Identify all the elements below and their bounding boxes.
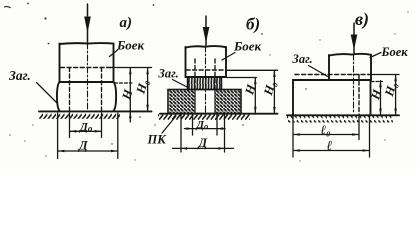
- upper die (boek) v: [329, 54, 371, 80]
- dim H v: [371, 81, 383, 115]
- center axis b: [205, 46, 207, 113]
- center axis a: [87, 43, 89, 111]
- scan specks: [4, 3, 307, 145]
- ground b: [160, 113, 278, 115]
- svg-text:б): б): [246, 15, 260, 34]
- dim l0 v: [293, 116, 359, 140]
- leader Boek b: [222, 53, 235, 61]
- dim H b: [227, 78, 257, 114]
- svg-text:До: До: [79, 122, 93, 134]
- svg-text:а): а): [120, 15, 133, 31]
- svg-text:ℓ₀: ℓ₀: [321, 122, 331, 137]
- svg-text:Боек: Боек: [381, 45, 409, 59]
- svg-text:Н₀: Н₀: [133, 78, 151, 97]
- workpiece slab v: [293, 80, 371, 115]
- svg-text:Боек: Боек: [233, 39, 262, 54]
- dim l v: [293, 116, 370, 157]
- backing ring PK block b: [168, 90, 241, 114]
- svg-text:Н₀: Н₀: [382, 80, 400, 99]
- dashed initial blank v: [295, 75, 371, 116]
- dim D a: [58, 113, 118, 159]
- dim H0 b: [226, 70, 278, 113]
- leader PK: [162, 116, 176, 133]
- svg-text:Заг.: Заг.: [8, 68, 31, 83]
- svg-text:Заг.: Заг.: [158, 67, 179, 81]
- svg-text:Н₀: Н₀: [261, 79, 279, 98]
- force arrow v: [351, 23, 356, 54]
- upset flange (workpiece head) b: [188, 77, 222, 90]
- leader Boek v: [370, 53, 381, 58]
- dim H0 a: [110, 68, 152, 112]
- dim H0 v: [371, 75, 399, 116]
- svg-text:До: До: [196, 119, 209, 131]
- dashed initial bar b: [186, 59, 226, 90]
- leader Zag v: [309, 66, 330, 78]
- dim H a: [115, 68, 132, 122]
- upper die (boek) a: [60, 43, 114, 82]
- svg-text:Боек: Боек: [116, 38, 145, 53]
- center axis v: [353, 54, 355, 112]
- force arrow a: [85, 4, 90, 43]
- dim D b (outside arrows): [173, 115, 234, 153]
- force arrow b: [203, 16, 208, 46]
- dashed initial blank outline a: [61, 68, 112, 112]
- svg-text:Заг.: Заг.: [292, 52, 313, 66]
- svg-text:в): в): [355, 9, 369, 30]
- ground / anvil a: [39, 110, 152, 112]
- upper die (boek) b: [186, 46, 227, 77]
- dim D0 a: [70, 113, 102, 138]
- svg-text:ℓ: ℓ: [327, 138, 333, 153]
- svg-text:Д: Д: [78, 139, 88, 153]
- leader Zag b: [173, 80, 188, 88]
- workpiece barrel a: [57, 82, 116, 111]
- svg-text:ПК: ПК: [147, 133, 168, 147]
- ground v: [287, 114, 399, 116]
- leader Zag a: [37, 83, 58, 104]
- svg-text:Д: Д: [198, 136, 208, 150]
- dim d0 b (outside arrows): [185, 115, 226, 136]
- leader Boek a: [110, 50, 118, 57]
